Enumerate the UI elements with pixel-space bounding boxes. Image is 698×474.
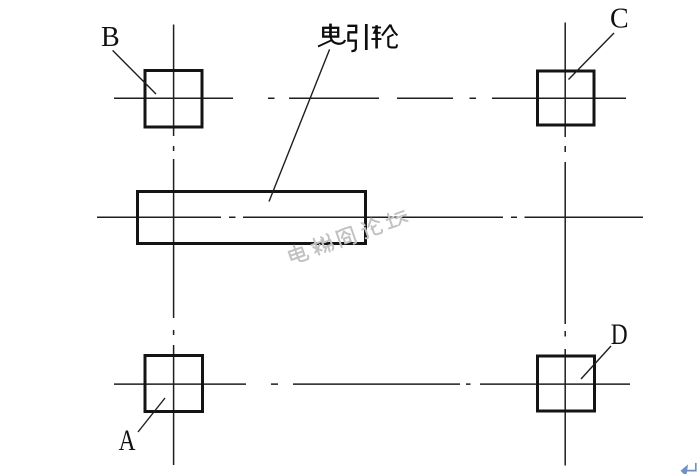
leader line label D bbox=[581, 346, 611, 379]
bedplate square B bbox=[145, 71, 202, 128]
centerline vertical right (through C and D) bbox=[564, 23, 566, 466]
wm char 坛 bbox=[384, 208, 408, 228]
return mark icon (blue) bbox=[683, 463, 695, 471]
label D bbox=[611, 317, 628, 350]
leader line sheave label bbox=[269, 49, 330, 201]
centerline horizontal bottom (through A and D) bbox=[114, 383, 630, 385]
wm char 梯 bbox=[310, 233, 335, 256]
wm char 电 bbox=[287, 242, 309, 264]
wm char 论 bbox=[360, 216, 383, 238]
leader line label C bbox=[569, 33, 615, 80]
label A bbox=[119, 423, 136, 456]
traction sheave rectangle bbox=[138, 192, 366, 244]
svg-text:D: D bbox=[611, 317, 628, 350]
centerline horizontal middle (through sheave) bbox=[97, 216, 643, 218]
label 曳引轮 (traction sheave), hand-drawn glyphs bbox=[318, 24, 397, 52]
centerline horizontal top (through B and C) bbox=[114, 97, 626, 99]
bedplate square D bbox=[538, 356, 595, 411]
glyph 引 bbox=[347, 24, 366, 51]
leader line label A bbox=[138, 398, 165, 432]
svg-text:B: B bbox=[101, 22, 120, 53]
svg-text:C: C bbox=[610, 4, 629, 35]
glyph 轮 bbox=[371, 25, 397, 49]
bedplate square C bbox=[538, 71, 595, 125]
watermark 电梯阁论坛 bbox=[287, 207, 409, 265]
leader line label B bbox=[113, 50, 156, 94]
bedplate square A bbox=[145, 356, 203, 412]
glyph 曳 bbox=[318, 24, 345, 47]
svg-text:A: A bbox=[119, 423, 136, 456]
centerline vertical left (through B and A) bbox=[173, 25, 175, 466]
wm char 阁 bbox=[336, 226, 356, 248]
